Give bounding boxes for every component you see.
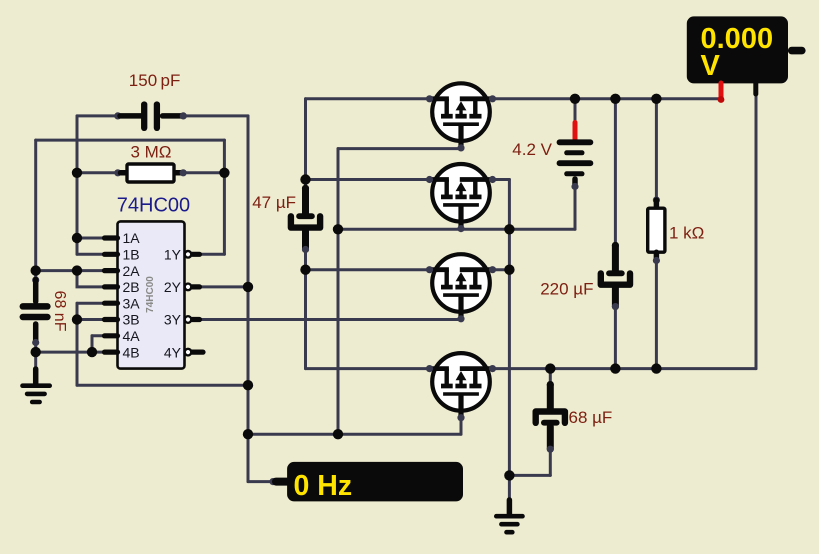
battery V1 4.2V [560, 123, 591, 191]
node 220uF rail junction [610, 94, 620, 104]
node battery rail junction [570, 94, 580, 104]
node M3 right junction [504, 265, 514, 275]
node 1A junction [72, 233, 82, 243]
wire gate bus vertical [337, 149, 340, 435]
svg-text:3Y: 3Y [164, 312, 182, 328]
wire 3Y to M3 gate [201, 318, 461, 321]
node 1k rail junction [651, 94, 661, 104]
node battery-gate junction [504, 224, 514, 234]
svg-text:74HC00: 74HC00 [117, 195, 190, 217]
transistor Q4 (MOSFET) [426, 353, 496, 421]
node 4B tie junction [87, 347, 97, 357]
wire M1 left wire [306, 97, 431, 100]
transistor Q3 (MOSFET) [426, 254, 496, 322]
wire 1B stub wire [77, 253, 104, 256]
pin 1Y [164, 247, 200, 263]
wire 3A-3B vertical [76, 303, 79, 385]
transistor Q2 (MOSFET) [426, 164, 496, 232]
wire voltmeter black probe wire [755, 96, 758, 369]
svg-text:220 µF: 220 µF [540, 279, 593, 298]
node 220uF bottom junction [610, 363, 620, 373]
svg-text:68 µF: 68 µF [569, 408, 613, 427]
wire M4 gate wire [248, 433, 461, 436]
transistor Q1 (MOSFET) [426, 83, 496, 151]
pin 4B [105, 344, 140, 360]
resistor R1 3Mohm [114, 164, 187, 182]
wire M3 left wire [306, 268, 431, 271]
wire M1-M2 left vertical [304, 99, 307, 180]
wire bottom rail [492, 367, 756, 370]
svg-text:3 MΩ: 3 MΩ [130, 142, 171, 161]
pin 1B [105, 247, 140, 263]
svg-text:1Y: 1Y [164, 247, 182, 263]
svg-text:2Y: 2Y [164, 279, 182, 295]
wire 47uF top wire [304, 180, 307, 190]
capacitor C3 47uF [291, 185, 320, 253]
wire battery bottom wire [574, 187, 577, 230]
wire 220uF bottom wire [614, 306, 617, 369]
svg-text:4Y: 4Y [164, 344, 182, 360]
wire long vertical 2Y node [247, 116, 250, 482]
capacitor C4 220uF [601, 242, 630, 310]
wire bottom wire 3AB to node [77, 384, 248, 387]
ground GND1 [23, 369, 50, 402]
wire M2 right wire [492, 178, 509, 181]
wire 3B stub wire [77, 318, 104, 321]
wire right long vertical [508, 180, 511, 476]
IC U1 74HC00 [118, 221, 185, 368]
svg-text:47 µF: 47 µF [252, 193, 296, 212]
wire 150pF right wire [182, 114, 248, 117]
node M3 left junction [300, 265, 310, 275]
svg-text:4A: 4A [123, 328, 141, 344]
wire left rail upper [34, 140, 37, 281]
svg-text:150 pF: 150 pF [129, 71, 181, 90]
wire 1k top wire [655, 99, 658, 201]
pin 3B [105, 312, 140, 328]
wire 3M left wire [77, 171, 119, 174]
node rail-2A junction [31, 265, 41, 275]
capacitor C1 150pF [114, 105, 187, 128]
svg-text:2A: 2A [123, 263, 141, 279]
wire left vertical from 150pF to 1B [76, 116, 79, 254]
pin 1A [105, 230, 141, 246]
svg-text:1 kΩ: 1 kΩ [669, 223, 704, 242]
node 1k bottom junction [651, 363, 661, 373]
svg-text:4B: 4B [123, 344, 140, 360]
svg-text:V: V [701, 50, 721, 82]
node M4 gate bus junction [333, 429, 343, 439]
voltmeter red probe [719, 83, 724, 99]
node 2A junction [72, 265, 82, 275]
wire battery top wire [574, 99, 577, 123]
node gate bus junction [333, 224, 343, 234]
ground GND2 [496, 500, 522, 532]
pin 3A [105, 295, 141, 311]
wire 68uF bottom wire [549, 449, 552, 476]
wire 2A wire from left rail [36, 269, 104, 272]
voltmeter black probe [753, 83, 758, 94]
node 2Y node junction [243, 282, 253, 292]
wire 3M right wire [182, 171, 224, 174]
node 3B junction [72, 314, 82, 324]
node ground junction [504, 470, 514, 480]
resistor R2 1kohm [648, 196, 665, 264]
pin 4Y [164, 344, 203, 360]
svg-text:4.2 V: 4.2 V [512, 140, 552, 159]
wire left vertical to M4 [304, 270, 307, 369]
wire M2 left wire [306, 178, 431, 181]
wire M2 gate / battery wire [338, 228, 575, 231]
wire M4 left wire [306, 367, 431, 370]
wire ground drop wire [508, 475, 511, 500]
pin 2Y [164, 279, 200, 295]
wire 1Y feedback vertical [223, 140, 226, 254]
wire 68uF to ground wire [509, 474, 550, 477]
node 3M-left/1A net [72, 168, 82, 178]
wire 3A wire [77, 302, 104, 305]
wire 150pF left wire [77, 114, 119, 117]
wire M4 gate drop [460, 417, 463, 434]
wire 2A-2B tie [77, 271, 104, 287]
wire 1A stub wire [77, 237, 104, 240]
wire 68uF top wire [549, 369, 552, 386]
voltmeter display 0.000 V [687, 16, 802, 83]
wire M3 right wire [492, 268, 509, 271]
pin 3Y [164, 312, 200, 328]
svg-text:1A: 1A [123, 230, 141, 246]
wire 47uF bottom wire [304, 249, 307, 270]
wire M1 gate wire [338, 147, 461, 150]
pin 4A [105, 328, 141, 344]
node 3M-right/1Y [219, 168, 229, 178]
capacitor C5 68uF [536, 381, 565, 453]
pin 2B [105, 279, 140, 295]
wire top-left horizontal [36, 139, 225, 142]
wire top rail [492, 97, 721, 100]
node 2Y-3AB junction [243, 380, 253, 390]
pin 2A [105, 263, 141, 279]
svg-text:3B: 3B [123, 312, 140, 328]
node 2Y-M4gate junction [243, 429, 253, 439]
wire left rail lower [34, 342, 37, 369]
wire 4B wire [36, 351, 104, 354]
node 68uF top junction [545, 363, 555, 373]
node M2 left junction [300, 174, 310, 184]
svg-text:74HC00: 74HC00 [145, 276, 156, 313]
svg-text:1B: 1B [123, 247, 140, 263]
svg-text:68 nF: 68 nF [51, 291, 68, 332]
wire 2Y output wire [201, 285, 248, 288]
svg-text:2B: 2B [123, 279, 140, 295]
frequency display 0 Hz [269, 462, 463, 502]
wire 4A-4B tie [91, 336, 94, 352]
node rail-4B junction [31, 347, 41, 357]
wire 1k bottom wire [655, 260, 658, 369]
wire 0Hz connection [248, 480, 273, 483]
svg-text:3A: 3A [123, 295, 141, 311]
svg-text:0 Hz: 0 Hz [294, 470, 353, 502]
wire 4A wire [92, 334, 104, 337]
wire 1Y output [201, 253, 224, 256]
capacitor C2 68nF [23, 276, 48, 346]
wire 220uF top wire [614, 99, 617, 247]
